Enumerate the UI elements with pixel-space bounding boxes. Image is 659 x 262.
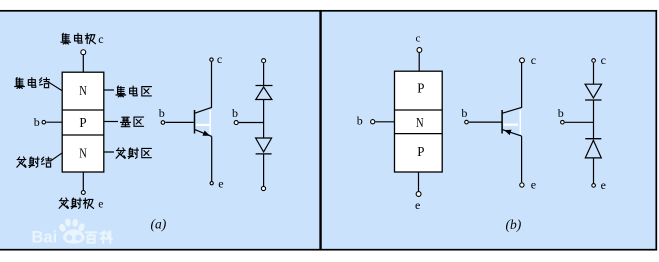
svg-text:c: c — [531, 53, 536, 67]
svg-text:b: b — [357, 113, 363, 127]
svg-text:(b): (b) — [506, 217, 522, 232]
svg-text:c: c — [601, 53, 606, 67]
Q1 emitter terminal e — [210, 182, 213, 185]
diode D2 triangle (pointing down) — [256, 138, 272, 152]
wire box to emitter terminal — [82, 172, 84, 190]
label 发射结 (emitter junction) — [17, 157, 52, 168]
Q1 collector wire — [195, 62, 212, 113]
svg-text:(a): (a) — [151, 217, 167, 232]
top terminal c — [592, 59, 596, 63]
Q1 base bar — [194, 110, 196, 134]
wire b to box — [46, 121, 62, 123]
diode D3 triangle (pointing down) — [585, 84, 601, 98]
panel (a) frame — [0, 11, 320, 250]
svg-text:c: c — [416, 33, 421, 45]
diode D3 cathode bar — [585, 99, 601, 101]
white artifact cross — [504, 124, 519, 126]
svg-text:b: b — [461, 106, 467, 120]
Q2 base bar — [501, 110, 503, 134]
svg-text:b: b — [34, 115, 40, 129]
leader line to emitter junction — [50, 153, 63, 162]
PNP structure box — [395, 71, 443, 172]
emitter terminal circle — [416, 192, 421, 197]
Q1 emitter wire with arrow — [195, 130, 212, 137]
svg-text:b: b — [159, 106, 165, 120]
label 基区 (base region) — [120, 117, 143, 127]
Baidu watermark: paw toes — [58, 223, 67, 233]
svg-text:e: e — [601, 178, 606, 192]
svg-text:N: N — [79, 83, 87, 98]
diode D4 cathode bar — [585, 138, 601, 140]
svg-text:e: e — [218, 177, 223, 191]
wire — [263, 154, 265, 186]
junction line P/N — [395, 109, 443, 111]
white artifact cross — [196, 124, 210, 126]
wire — [593, 158, 595, 183]
svg-text:c: c — [98, 32, 103, 46]
svg-text:Bai: Bai — [32, 229, 58, 247]
diode D1 triangle (pointing up) — [256, 87, 272, 100]
wire b to diodes — [239, 122, 264, 124]
label 集电区 (collector region) — [116, 86, 151, 97]
wire c to box — [418, 53, 420, 71]
junction line P/N — [62, 134, 104, 136]
Q2 collector wire — [502, 63, 521, 113]
wire b to box — [375, 121, 394, 123]
wire b to diodes — [565, 121, 594, 123]
diode D1 cathode bar — [256, 85, 273, 87]
NPN structure box — [62, 72, 104, 172]
svg-text:e: e — [98, 198, 103, 210]
diode D4 triangle (pointing up) — [585, 140, 601, 158]
Q2 emitter terminal e — [520, 183, 524, 187]
wire box to 基区 label — [104, 121, 118, 123]
svg-text:P: P — [417, 80, 424, 95]
label 集电结 (collector junction) — [15, 77, 50, 88]
svg-text:P: P — [417, 144, 424, 159]
wire — [263, 63, 265, 85]
label 集电极 c (collector electrode) — [61, 33, 96, 44]
Q2 base wire — [469, 121, 502, 123]
Baidu watermark: 百科 — [86, 231, 112, 243]
Q2 collector terminal c — [520, 58, 525, 63]
svg-text:b: b — [558, 106, 564, 120]
wire — [263, 100, 265, 139]
wire collector to box — [82, 55, 84, 72]
wire — [593, 100, 595, 139]
emitter terminal circle — [81, 191, 85, 195]
svg-text:b: b — [232, 106, 238, 120]
collector terminal circle c — [81, 50, 86, 55]
leader line to collector junction — [48, 82, 62, 91]
diode D2 cathode bar — [256, 153, 272, 155]
wire box to 发射区 label — [104, 151, 114, 153]
top terminal — [262, 59, 266, 63]
svg-text:e: e — [415, 198, 420, 212]
wire box to emitter terminal — [418, 172, 420, 191]
svg-text:c: c — [217, 52, 222, 66]
wire — [593, 63, 595, 84]
junction line N/P — [395, 133, 443, 135]
wire box to 集电区 label — [104, 89, 114, 91]
label 发射区 (emitter region) — [116, 148, 151, 159]
bottom terminal e — [592, 184, 596, 188]
junction line N/P — [62, 109, 104, 111]
svg-text:N: N — [79, 146, 87, 161]
label 发射极 e (emitter electrode) — [59, 198, 93, 209]
bottom terminal — [261, 186, 265, 190]
Baidu watermark: paw palm — [63, 229, 85, 243]
panel (b) frame — [321, 11, 656, 250]
Q1 collector terminal c — [210, 58, 213, 61]
svg-text:N: N — [416, 115, 424, 130]
Q1 base wire — [165, 121, 194, 123]
Q2 emitter wire with arrow (pointing to base) — [502, 130, 521, 137]
svg-text:e: e — [531, 178, 536, 192]
svg-text:P: P — [79, 115, 86, 130]
